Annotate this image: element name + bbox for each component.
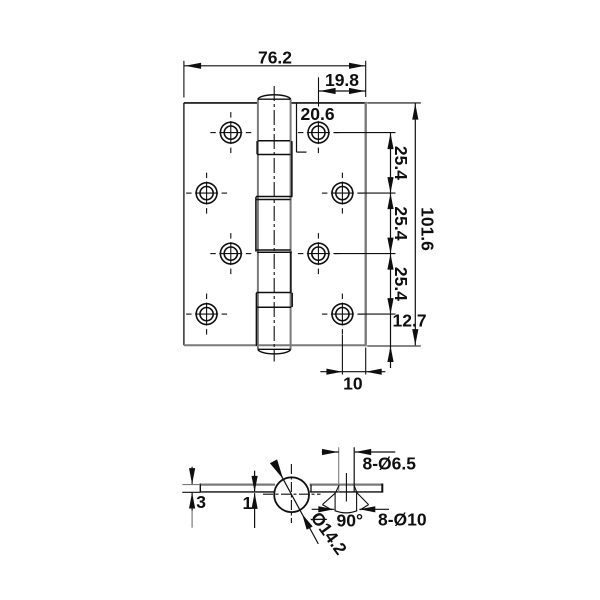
svg-text:10: 10 [343, 373, 363, 393]
screw hole R2 (countersunk) [332, 183, 353, 204]
svg-text:76.2: 76.2 [258, 48, 292, 68]
svg-text:8-Ø6.5: 8-Ø6.5 [363, 453, 417, 473]
screw hole L2 (countersunk) [196, 183, 217, 204]
dimension 8-Ø6.5 [322, 451, 339, 453]
svg-text:3: 3 [196, 492, 206, 512]
callout 20.6 knuckle segment [296, 104, 298, 153]
knuckle joint 4 [256, 292, 291, 294]
section leaf junction [310, 485, 312, 492]
screw hole R3 (countersunk) [308, 243, 329, 264]
dimension 10 hole to edge [341, 335, 343, 375]
knuckle top cap [258, 98, 291, 100]
svg-text:90°: 90° [337, 510, 363, 530]
svg-text:101.6: 101.6 [418, 207, 438, 251]
dimension line Ø14.2 through barrel [274, 461, 319, 544]
barrel horizontal centerline [263, 493, 321, 495]
section leaf bottom surface [200, 491, 274, 493]
countersink cone projection [322, 493, 335, 505]
svg-text:19.8: 19.8 [325, 70, 359, 90]
screw hole R4 (countersunk) [332, 304, 353, 325]
dimension 1 clearance [254, 471, 256, 492]
dimension 8-Ø10 [312, 508, 335, 510]
hinge plate bottom edge [184, 344, 366, 346]
screw hole R1 (countersunk) [308, 122, 329, 143]
screw hole L3 (countersunk) [220, 243, 241, 264]
dimension 3 leaf thickness [182, 484, 200, 486]
svg-text:25.4: 25.4 [391, 267, 411, 301]
knuckle left side [257, 99, 259, 349]
countersink hole walls [338, 447, 340, 492]
screw hole L1 (countersunk) [220, 122, 241, 143]
svg-text:1: 1 [243, 493, 253, 513]
section leaf top surface [200, 484, 275, 486]
hinge plate right edge [365, 102, 367, 346]
knuckle pin centerline [273, 86, 275, 362]
knuckle joint 2 [256, 196, 292, 198]
dimension chain line [390, 133, 392, 368]
hinge plate top edge [184, 102, 258, 104]
knuckle right side [290, 99, 292, 349]
knuckle joint 3 [256, 249, 291, 251]
section leaf left end [199, 484, 201, 493]
dimension 101.6 overall height [367, 102, 421, 104]
section leaf right end [381, 484, 383, 493]
svg-text:12.7: 12.7 [393, 311, 427, 331]
svg-text:8-Ø10: 8-Ø10 [378, 509, 427, 529]
dimension 76.2 overall width [183, 61, 185, 98]
barrel circle [274, 477, 309, 512]
hinge plate left edge [183, 103, 185, 345]
screw hole L4 (countersunk) [196, 304, 217, 325]
svg-text:20.6: 20.6 [301, 104, 335, 124]
knuckle bottom cap [258, 348, 291, 350]
svg-text:25.4: 25.4 [391, 206, 411, 240]
knuckle joint 1 [258, 140, 290, 142]
barrel vertical centerline [290, 464, 292, 523]
svg-text:25.4: 25.4 [391, 146, 411, 180]
text 12.7 [397, 312, 428, 329]
dimension 19.8 hole to edge [318, 77, 320, 106]
